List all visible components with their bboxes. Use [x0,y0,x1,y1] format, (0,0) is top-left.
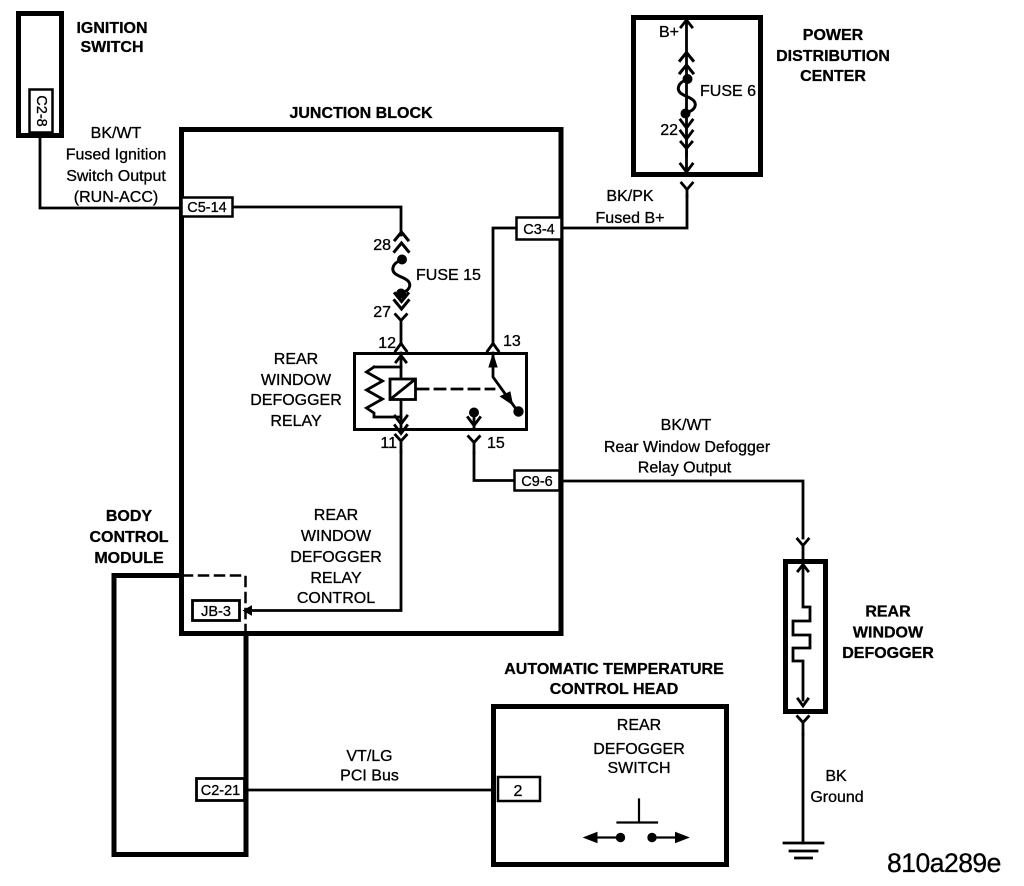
svg-text:RELAY: RELAY [270,413,322,430]
connector C2-21 box [197,779,245,801]
JB-3 arrowhead [244,606,252,615]
svg-text:BK/WT: BK/WT [91,125,142,142]
arrow chevrons down below fuse 15 [395,294,409,310]
svg-text:WINDOW: WINDOW [853,625,924,642]
svg-text:(RUN-ACC): (RUN-ACC) [74,189,158,206]
ground symbol [784,843,823,858]
svg-text:22: 22 [660,122,678,139]
junction block box [182,130,562,634]
wire pin 11 to JB-3 [250,452,401,611]
svg-text:Ground: Ground [810,789,863,806]
connector C3-4 box [517,218,562,240]
svg-text:27: 27 [373,304,391,321]
svg-text:DISTRIBUTION: DISTRIBUTION [776,48,890,65]
connector C5-14 box [182,198,233,217]
rear window defogger element box [786,562,826,712]
pin 11 chevrons down [395,416,407,434]
fuse F6 [683,74,693,84]
connector C2-8 box [30,90,53,133]
svg-text:REAR: REAR [617,717,661,734]
svg-text:WINDOW: WINDOW [261,372,332,389]
svg-text:CONTROL: CONTROL [297,590,375,607]
svg-text:REAR: REAR [274,351,318,368]
svg-text:IGNITION: IGNITION [76,20,147,37]
svg-text:CONTROL: CONTROL [89,529,168,546]
connector Y at fuse 15 output [396,315,407,344]
wire C3-4 to pin 13 [493,228,515,343]
wire ignition switch to C5-14 [40,136,180,208]
svg-text:C2-21: C2-21 [201,783,241,799]
relay center wire pin 12 to pin 11 [400,353,403,430]
svg-text:VT/LG: VT/LG [346,748,392,765]
relay fixed contact pin 15 [468,408,480,430]
svg-text:C5-14: C5-14 [187,200,227,216]
svg-text:SWITCH: SWITCH [607,760,670,777]
relay coil resistor zigzag [367,367,402,417]
PDC chevron at bottom [681,164,693,172]
svg-text:C2-8: C2-8 [33,95,49,126]
body control module dashed boundary [183,576,246,631]
connector Y below defogger [798,717,809,735]
svg-text:DEFOGGER: DEFOGGER [250,392,342,409]
svg-text:AUTOMATIC TEMPERATURE: AUTOMATIC TEMPERATURE [504,661,724,678]
svg-text:CONTROL HEAD: CONTROL HEAD [550,681,679,698]
svg-text:13: 13 [503,333,521,350]
svg-text:B+: B+ [659,24,679,41]
wire C3-4 to power distribution center [563,196,687,228]
svg-text:MODULE: MODULE [94,550,164,567]
arrow chevrons up above fuse 15 [395,232,409,252]
svg-text:POWER: POWER [803,27,864,44]
relay chevron up inside [396,356,406,363]
connector Y pin 22 [681,142,692,156]
fuse F15 [397,255,407,265]
svg-text:DEFOGGER: DEFOGGER [593,741,685,758]
svg-text:Rear Window Defogger: Rear Window Defogger [604,439,771,456]
svg-text:15: 15 [487,435,505,452]
ignition switch box [19,14,62,136]
svg-text:Fused Ignition: Fused Ignition [66,147,167,164]
body control module outline [114,576,246,855]
svg-text:CENTER: CENTER [800,68,866,85]
PDC arrow chevron at B+ [681,20,692,27]
svg-text:RELAY: RELAY [310,570,362,587]
wire C9-6 to rear window defogger [561,481,803,538]
rear defogger switch symbol [584,800,689,843]
wire C2-21 to ATC head [246,789,494,792]
svg-text:Fused B+: Fused B+ [596,210,665,227]
connector Y below PDC [682,183,693,196]
wire pin 15 to C9-6 [474,453,513,481]
pin 11 connector Y [396,435,407,452]
svg-text:C3-4: C3-4 [523,222,554,238]
relay coil box [390,379,416,400]
relay box [355,354,527,430]
svg-text:Relay Output: Relay Output [638,460,732,477]
wire defogger to ground [802,734,805,843]
svg-text:DEFOGGER: DEFOGGER [290,549,382,566]
svg-text:REAR: REAR [865,604,911,621]
power distribution center box [634,18,761,175]
PDC double chevrons up [680,53,693,74]
svg-text:BK: BK [825,768,847,785]
svg-text:BK/PK: BK/PK [606,188,653,205]
svg-text:BODY: BODY [106,508,153,525]
svg-text:JUNCTION BLOCK: JUNCTION BLOCK [289,105,433,122]
connector Y above defogger [798,539,809,559]
pin 15 connector Y [469,437,480,454]
svg-text:REAR: REAR [314,507,358,524]
svg-text:12: 12 [378,335,396,352]
pin 13 connector lambda [488,344,499,352]
svg-text:C9-6: C9-6 [521,474,552,490]
svg-text:BK/WT: BK/WT [661,417,712,434]
defogger element internal [793,562,810,706]
svg-text:WINDOW: WINDOW [301,528,372,545]
PDC double chevrons down [681,120,693,139]
svg-text:DEFOGGER: DEFOGGER [842,645,934,662]
svg-text:2: 2 [514,783,523,800]
svg-text:28: 28 [373,237,391,254]
connector JB-3 box [193,601,240,621]
svg-text:810a289e: 810a289e [887,848,1001,878]
pin 12 connector lambda [396,344,407,352]
relay switch arm pin 13 to contact [489,353,524,417]
svg-text:FUSE 6: FUSE 6 [700,83,756,100]
svg-text:FUSE 15: FUSE 15 [416,267,481,284]
svg-text:SWITCH: SWITCH [80,39,143,56]
wire C5-14 to fuse 15 [234,207,401,235]
svg-text:JB-3: JB-3 [201,604,231,620]
connector 2 box [498,777,540,801]
relay dashed actuator link [418,388,494,391]
svg-text:11: 11 [380,435,397,452]
svg-text:PCI Bus: PCI Bus [340,768,399,785]
svg-text:Switch Output: Switch Output [66,168,166,185]
PDC internal wire [685,20,688,172]
connector C9-6 box [515,471,560,491]
automatic temperature control head box [494,707,727,865]
